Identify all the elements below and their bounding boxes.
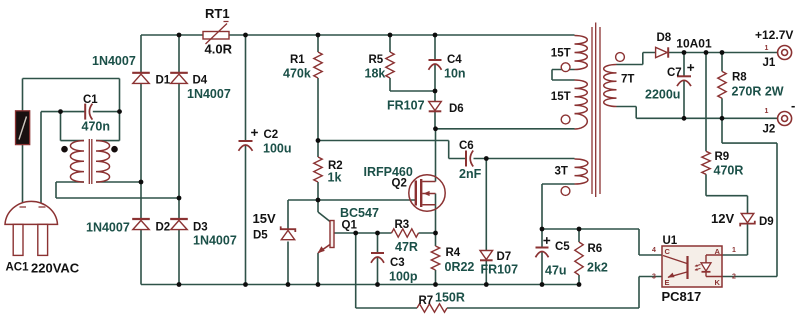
wire 7T top lead to D8 xyxy=(617,53,656,65)
svg-text:E: E xyxy=(665,278,670,287)
svg-text:D6: D6 xyxy=(449,103,464,115)
capacitor C7 xyxy=(677,76,691,86)
svg-text:1N4007: 1N4007 xyxy=(92,54,136,68)
svg-text:C4: C4 xyxy=(447,54,462,66)
capacitor C5 xyxy=(536,248,549,258)
junction dots output minus xyxy=(682,116,725,121)
choke left winding xyxy=(70,141,84,182)
wire Q1 emitter down xyxy=(317,253,319,285)
svg-text:47u: 47u xyxy=(545,264,567,278)
polarity plus C2 xyxy=(251,129,258,136)
label 15T lower xyxy=(551,91,571,103)
label R2 value 1k xyxy=(328,171,342,185)
wire D6 column xyxy=(434,91,436,129)
label FR107 for D7 xyxy=(481,263,519,277)
wire choke drops xyxy=(61,112,120,141)
svg-text:1k: 1k xyxy=(328,171,342,185)
svg-text:AC1: AC1 xyxy=(6,262,30,274)
svg-text:Q1: Q1 xyxy=(342,220,358,232)
plug AC1 xyxy=(5,201,58,255)
label D2 xyxy=(156,222,171,234)
U1 pin number 4 xyxy=(652,247,656,254)
label RT1 value 4.0R xyxy=(205,42,233,57)
label 1N4007 top xyxy=(92,54,136,68)
svg-text:D3: D3 xyxy=(193,222,208,234)
capacitor C6 xyxy=(466,151,473,167)
wire choke left coil top lead xyxy=(61,140,85,142)
U1 pin number 3 xyxy=(652,274,656,281)
label Q1 xyxy=(342,220,358,232)
U1 phototransistor xyxy=(663,256,688,280)
svg-text:J2: J2 xyxy=(763,124,776,136)
wire R9 column xyxy=(706,53,748,214)
wire R1 R2 column xyxy=(317,35,319,200)
label J1 xyxy=(763,57,776,69)
label R4 value 0R22 xyxy=(445,260,475,274)
svg-text:R3: R3 xyxy=(395,219,410,231)
wire bridge column D4 D3 xyxy=(178,35,180,285)
wire 3T top lead xyxy=(486,158,574,160)
wire Q1 collector xyxy=(317,200,319,212)
label D5 value 15V xyxy=(253,211,276,226)
wire D9 to U1 pin1 xyxy=(722,225,748,256)
svg-text:D5: D5 xyxy=(253,230,268,242)
U1 led xyxy=(701,255,722,277)
label J2 xyxy=(763,124,776,136)
label D5 xyxy=(253,230,268,242)
capacitor C4 xyxy=(429,60,442,70)
svg-text:C2: C2 xyxy=(264,129,279,141)
U1 pin number 1 xyxy=(732,247,736,254)
svg-text:1: 1 xyxy=(765,45,769,52)
label AC1 xyxy=(6,262,30,274)
transistor Q1 xyxy=(318,212,334,253)
label PC817 xyxy=(662,289,702,304)
junction dots base row xyxy=(353,231,438,236)
connector J2 xyxy=(778,112,792,126)
diode D1 xyxy=(132,73,150,84)
label D3 xyxy=(193,222,208,234)
resistor R2 xyxy=(314,157,322,182)
label 3T xyxy=(555,166,568,178)
svg-text:3: 3 xyxy=(652,274,656,281)
wire C4 column xyxy=(434,35,436,91)
label C2 xyxy=(264,129,279,141)
svg-text:J1: J1 xyxy=(763,57,776,69)
label 7T xyxy=(621,74,634,86)
wire U1 pin2 to output minus xyxy=(722,118,777,276)
wire C7 column xyxy=(683,53,685,119)
label R1 value 470k xyxy=(283,67,311,81)
label C4 value 10n xyxy=(444,67,466,81)
svg-text:K: K xyxy=(715,278,721,287)
resistor R9 xyxy=(702,151,710,174)
svg-text:D7: D7 xyxy=(497,251,512,263)
svg-text:1: 1 xyxy=(732,247,736,254)
wire C5 column xyxy=(541,229,543,285)
svg-text:D8: D8 xyxy=(657,32,672,44)
label R5 xyxy=(369,54,384,66)
svg-text:D4: D4 xyxy=(193,75,208,87)
wire zener D5 column xyxy=(287,200,289,285)
U1 light arrows xyxy=(695,264,701,270)
label J2 minus xyxy=(791,98,795,113)
svg-text:D9: D9 xyxy=(759,216,774,228)
label R9 xyxy=(715,151,730,163)
label C6 xyxy=(459,140,474,152)
svg-text:15T: 15T xyxy=(551,91,571,103)
junction dot gate node xyxy=(316,198,321,203)
polarity circle upper primary xyxy=(561,63,570,72)
polarity plus C7 xyxy=(687,64,694,71)
label D4 xyxy=(193,75,208,87)
U1 pin number 2 xyxy=(732,274,736,281)
choke right winding xyxy=(96,141,110,182)
label IRFP460 xyxy=(364,165,413,179)
label Q2 xyxy=(392,178,407,190)
svg-text:C1: C1 xyxy=(83,94,98,106)
svg-text:R6: R6 xyxy=(588,243,603,255)
label R3 xyxy=(395,219,410,231)
junction dots top rail xyxy=(177,33,438,38)
svg-text:270R 2W: 270R 2W xyxy=(732,85,784,99)
svg-text:R1: R1 xyxy=(290,54,305,66)
svg-text:0R22: 0R22 xyxy=(445,260,475,274)
label R2 xyxy=(328,160,343,172)
label C2 value 100u xyxy=(263,142,292,156)
svg-text:15V: 15V xyxy=(253,211,276,226)
wire C3 column xyxy=(377,233,379,285)
label C5 xyxy=(555,241,570,253)
U1 pin letter A xyxy=(715,247,721,256)
label C7 xyxy=(667,67,682,79)
diode D7 xyxy=(480,251,493,261)
label 220VAC xyxy=(31,261,80,276)
svg-text:470R: 470R xyxy=(714,164,744,178)
wire feedback row to C6 xyxy=(318,141,486,159)
svg-text:10n: 10n xyxy=(444,67,466,81)
svg-text:15T: 15T xyxy=(551,48,571,60)
label C1 xyxy=(83,94,98,106)
label R3 value 47R xyxy=(395,240,418,254)
connector J1 xyxy=(778,46,792,60)
svg-text:2nF: 2nF xyxy=(459,167,482,181)
junction dots aux node row xyxy=(540,227,582,232)
label R4 xyxy=(446,247,461,259)
svg-text:1N4007: 1N4007 xyxy=(187,87,231,101)
wire R8 column xyxy=(721,53,723,119)
svg-text:C: C xyxy=(665,247,671,256)
svg-text:C3: C3 xyxy=(390,257,405,269)
polarity circle 7T xyxy=(616,53,625,62)
label R7 value 150R xyxy=(435,291,465,305)
label 1N4007 for D3 xyxy=(193,234,237,248)
wire bridge column D1 D2 xyxy=(140,35,142,285)
diode D8 xyxy=(656,47,669,57)
wire top rail xyxy=(141,34,575,36)
wire drain row to primary bottom xyxy=(436,129,575,182)
wire base row xyxy=(334,232,436,234)
label D1 xyxy=(156,75,171,87)
svg-text:R9: R9 xyxy=(715,151,730,163)
svg-text:47R: 47R xyxy=(395,240,418,254)
wire output plus rail xyxy=(669,52,778,54)
resistor R8 xyxy=(718,71,726,98)
svg-text:C7: C7 xyxy=(667,67,682,79)
label D9 xyxy=(759,216,774,228)
svg-text:2200u: 2200u xyxy=(645,88,680,102)
diode D6 xyxy=(429,102,442,112)
svg-text:470k: 470k xyxy=(283,67,311,81)
label C7 value 2200u xyxy=(645,88,680,102)
zener diode D5 xyxy=(281,226,296,239)
svg-text:2k2: 2k2 xyxy=(587,261,608,275)
svg-text:PC817: PC817 xyxy=(662,289,702,304)
svg-text:220VAC: 220VAC xyxy=(31,261,80,276)
label D7 xyxy=(497,251,512,263)
wire primary ground rail xyxy=(141,284,580,286)
U1 pin letter K xyxy=(715,278,721,287)
transformer aux winding 3T xyxy=(575,159,588,184)
svg-text:18k: 18k xyxy=(365,67,386,81)
U1 pin letter E xyxy=(665,278,670,287)
resistor R6 xyxy=(575,242,583,275)
diode D4 xyxy=(170,73,188,84)
wire 3T bottom lead xyxy=(542,184,575,229)
svg-text:1N4007: 1N4007 xyxy=(86,221,130,235)
label C3 xyxy=(390,257,405,269)
mosfet Q2 xyxy=(409,175,445,211)
svg-text:D1: D1 xyxy=(156,75,171,87)
label R5 value 18k xyxy=(365,67,386,81)
svg-text:C5: C5 xyxy=(555,241,570,253)
pin number J2 xyxy=(765,108,769,115)
thermistor RT1 xyxy=(203,22,229,45)
transformer core xyxy=(592,23,600,198)
label C5 value 47u xyxy=(545,264,567,278)
svg-text:12V: 12V xyxy=(711,211,734,226)
svg-text:BC547: BC547 xyxy=(340,206,379,220)
diode D3 xyxy=(170,219,188,230)
label R1 xyxy=(290,54,305,66)
capacitor C1 xyxy=(85,104,92,120)
wire R7 branch xyxy=(356,233,662,308)
wire choke left coil bottom jog to bridge right column xyxy=(56,182,179,198)
svg-text:FR107: FR107 xyxy=(481,263,519,277)
label D9 value 12V xyxy=(711,211,734,226)
transformer primary winding lower 15T xyxy=(575,80,588,129)
label RT1 xyxy=(205,6,230,21)
svg-text:A: A xyxy=(715,247,721,256)
svg-text:150R: 150R xyxy=(435,291,465,305)
fuse F1 xyxy=(16,111,30,145)
wire R5 column xyxy=(390,35,435,91)
svg-text:4.0R: 4.0R xyxy=(205,42,233,57)
pin number J1 xyxy=(765,45,769,52)
label C4 xyxy=(447,54,462,66)
svg-text:D2: D2 xyxy=(156,222,171,234)
resistor R7 xyxy=(417,304,447,312)
wire mosfet source to R4 xyxy=(435,194,437,285)
label U1 xyxy=(663,235,678,247)
svg-text:100p: 100p xyxy=(389,270,418,284)
wire AC live: fuse column and top link xyxy=(23,79,120,208)
label C1 value 470n xyxy=(82,120,111,134)
capacitor C2 xyxy=(239,141,253,151)
wire AC neutral: plug to C1 row xyxy=(41,112,120,207)
label R9 value 470R xyxy=(714,164,744,178)
label R8 value 270R 2W xyxy=(732,85,784,99)
op-amp U1 optocoupler PC817 box xyxy=(662,246,722,287)
diode D2 xyxy=(132,219,150,230)
resistor R4 xyxy=(431,246,439,270)
wire snubber link R5 C4 D6 xyxy=(0,0,1,1)
wire aux node row xyxy=(542,229,662,255)
wire choke right coil bottom to bridge left column xyxy=(96,181,141,183)
polarity circle 3T xyxy=(561,187,570,196)
svg-text:FR107: FR107 xyxy=(387,99,425,113)
junction dots primary ground rail xyxy=(177,282,582,287)
resistor R1 xyxy=(314,52,322,78)
polarity circle lower primary xyxy=(561,115,570,124)
label C3 value 100p xyxy=(389,270,418,284)
svg-text:100u: 100u xyxy=(263,142,292,156)
label +12.7V xyxy=(755,28,793,42)
svg-text:U1: U1 xyxy=(663,235,678,247)
svg-text:7T: 7T xyxy=(621,74,634,86)
wire C2 column xyxy=(245,35,247,285)
svg-text:470n: 470n xyxy=(82,120,111,134)
transformer primary winding upper 15T xyxy=(575,36,588,70)
choke polarity dots xyxy=(61,146,118,153)
svg-text:1: 1 xyxy=(765,108,769,115)
svg-text:10A01: 10A01 xyxy=(676,37,712,51)
wire choke right coil top lead xyxy=(96,140,120,142)
svg-text:R8: R8 xyxy=(732,72,747,84)
svg-text:3T: 3T xyxy=(555,166,568,178)
svg-text:Q2: Q2 xyxy=(392,178,407,190)
svg-text:1N4007: 1N4007 xyxy=(193,234,237,248)
svg-text:RT1: RT1 xyxy=(205,6,230,21)
svg-text:2: 2 xyxy=(732,274,736,281)
label 15T upper xyxy=(551,48,571,60)
label BC547 xyxy=(340,206,379,220)
wire D7 column xyxy=(485,159,487,285)
choke core xyxy=(89,139,92,184)
label R7 xyxy=(419,295,434,307)
svg-text:4: 4 xyxy=(652,247,656,254)
resistor R3 xyxy=(392,229,419,237)
junction dots feedback and snubber xyxy=(316,89,489,161)
wire primary windings jog xyxy=(552,70,575,81)
resistor R5 xyxy=(386,52,394,78)
wire 7T bottom lead xyxy=(617,107,637,119)
U1 pin letter C xyxy=(665,247,671,256)
svg-text:+12.7V: +12.7V xyxy=(755,28,793,42)
svg-text:R4: R4 xyxy=(446,247,461,259)
label 1N4007 bottom left xyxy=(86,221,130,235)
label 1N4007 for D4 xyxy=(187,87,231,101)
wire R6 column xyxy=(578,229,580,285)
label R6 xyxy=(588,243,603,255)
svg-text:R5: R5 xyxy=(369,54,384,66)
zener diode D9 xyxy=(740,214,755,227)
capacitor C3 xyxy=(371,253,384,263)
svg-text:C6: C6 xyxy=(459,140,474,152)
wire gate row xyxy=(288,199,416,201)
label FR107 for D6 xyxy=(387,99,425,113)
label C6 value 2nF xyxy=(459,167,482,181)
polarity plus C5 xyxy=(543,237,550,244)
label D8 xyxy=(657,32,672,44)
label R6 value 2k2 xyxy=(587,261,608,275)
svg-text:-: - xyxy=(791,98,795,113)
transformer secondary winding 7T xyxy=(604,65,617,107)
label D6 xyxy=(449,103,464,115)
svg-text:R7: R7 xyxy=(419,295,434,307)
label 10A01 xyxy=(676,37,712,51)
label R8 xyxy=(732,72,747,84)
junction dots AC bridge nodes xyxy=(58,109,181,200)
wire output minus rail xyxy=(636,117,777,119)
junction dots output plus xyxy=(682,50,725,55)
